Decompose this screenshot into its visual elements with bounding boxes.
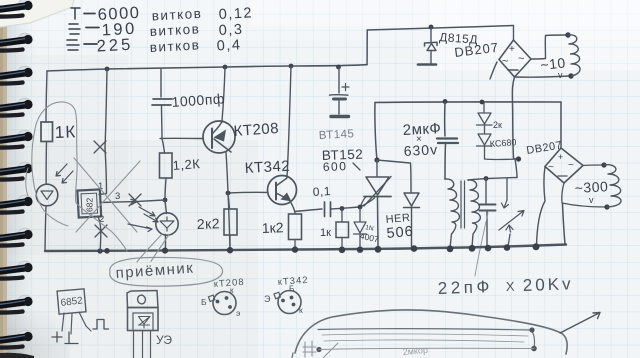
svg-text:Б: Б (289, 285, 294, 294)
svg-text:2к: 2к (493, 120, 502, 130)
svg-text:к: к (230, 286, 234, 295)
svg-text:506: 506 (386, 224, 414, 242)
svg-text:+: + (558, 152, 563, 162)
svg-text:600: 600 (323, 159, 348, 174)
svg-text:v: v (589, 195, 594, 205)
svg-text:Э: Э (264, 294, 271, 304)
svg-text:Б: Б (201, 297, 207, 307)
svg-text:к: к (299, 305, 303, 315)
svg-text:2к2: 2к2 (197, 215, 221, 232)
svg-text:630v: 630v (403, 141, 438, 159)
svg-text:2мкФ: 2мкФ (402, 120, 441, 139)
svg-text:3: 3 (115, 191, 120, 202)
svg-text:0,1: 0,1 (312, 184, 331, 199)
svg-text:э: э (236, 308, 240, 318)
svg-text:~: ~ (568, 160, 574, 171)
svg-text:витков: витков (149, 37, 200, 55)
svg-text:~300: ~300 (574, 178, 608, 196)
svg-text:КТ208: КТ208 (233, 120, 280, 140)
svg-text:УЭ: УЭ (156, 333, 172, 347)
svg-text:+: + (509, 44, 515, 55)
svg-text:0,12: 0,12 (218, 5, 253, 23)
svg-text:1к: 1к (320, 227, 331, 239)
svg-text:~: ~ (518, 53, 524, 65)
svg-text:1,2К: 1,2К (172, 156, 201, 173)
svg-text:682: 682 (85, 198, 95, 212)
svg-text:витков: витков (149, 21, 200, 39)
svg-text:22пФ: 22пФ (437, 277, 493, 298)
svg-text:v: v (558, 70, 563, 80)
svg-text:КС680: КС680 (489, 137, 516, 149)
svg-text:~: ~ (548, 162, 554, 173)
svg-text:~: ~ (502, 56, 508, 68)
svg-text:225: 225 (96, 36, 133, 56)
svg-text:X: X (506, 279, 516, 294)
svg-text:ВТ145: ВТ145 (319, 128, 355, 142)
svg-text:20Kv: 20Kv (522, 274, 573, 295)
svg-text:КТ342: КТ342 (244, 158, 290, 177)
svg-text:1К: 1К (54, 122, 76, 142)
svg-text:1к2: 1к2 (262, 219, 284, 236)
svg-text:0,4: 0,4 (216, 37, 241, 54)
